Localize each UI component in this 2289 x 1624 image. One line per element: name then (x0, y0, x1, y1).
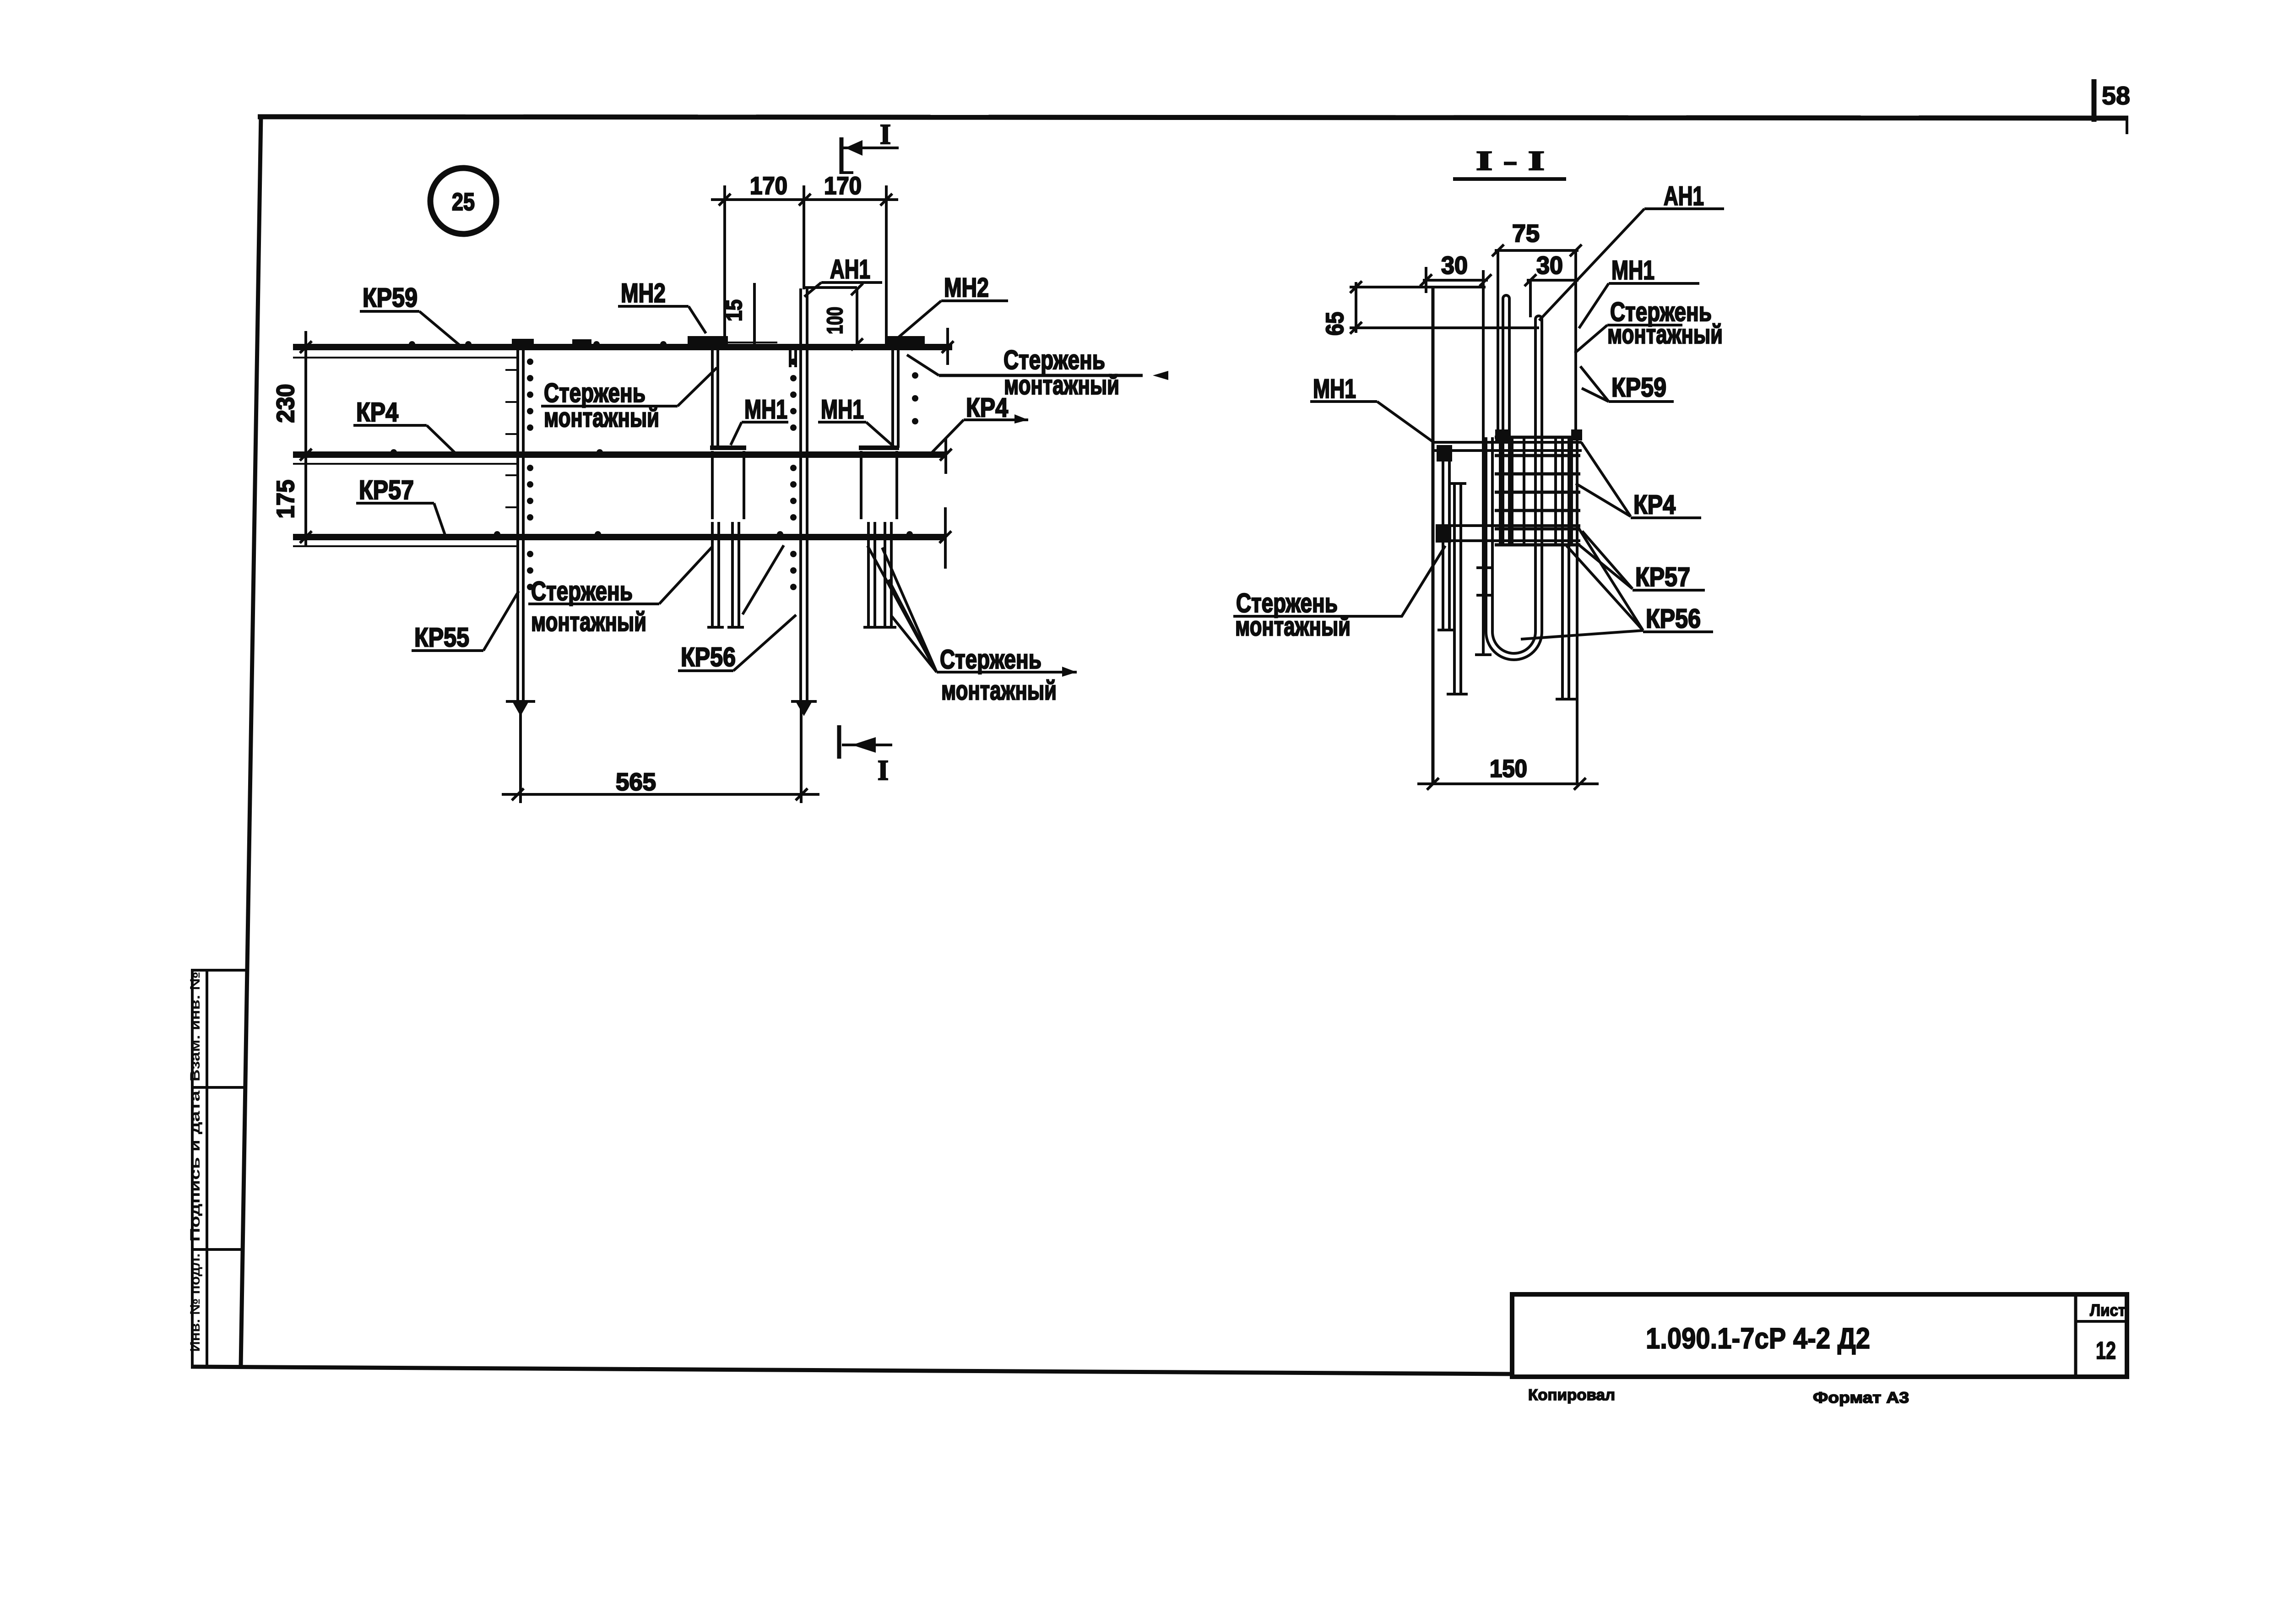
plate MH2 right (section blob) (885, 336, 925, 347)
svg-text:МН2: МН2 (944, 273, 989, 303)
dimension 15 (721, 283, 777, 346)
svg-text:монтажный: монтажный (1235, 612, 1351, 641)
svg-text:КР4: КР4 (356, 397, 398, 427)
svg-text:КР56: КР56 (1646, 604, 1701, 634)
bottom chord lower thin line (293, 545, 516, 547)
svg-text:монтажный: монтажный (941, 676, 1057, 706)
label KP59 (360, 283, 459, 345)
anchor rod AH1 (center) (790, 185, 857, 716)
weld blobs (1437, 445, 1452, 462)
vertical bar KP55 (506, 347, 535, 716)
label KP56 section (1521, 527, 1713, 639)
middle chord lower thin line (293, 463, 516, 465)
svg-text:58: 58 (2102, 81, 2130, 110)
svg-text:КР4: КР4 (966, 393, 1008, 423)
svg-text:монтажный: монтажный (531, 607, 646, 637)
right end tick middle chord (940, 439, 952, 474)
svg-text:Инв. № подл.: Инв. № подл. (188, 1254, 203, 1352)
right end tick bottom chord (939, 507, 951, 569)
rebar cage grid verticals (1500, 436, 1572, 544)
montage rod B (1447, 483, 1468, 694)
weld blob on chord (572, 339, 591, 348)
label KP59 section (1580, 366, 1674, 402)
svg-text:30: 30 (1536, 252, 1563, 279)
label MH1 section right (1579, 255, 1699, 328)
svg-text:монтажный: монтажный (544, 403, 659, 433)
top chord bar KP59 (293, 344, 952, 350)
svg-text:КР57: КР57 (1635, 562, 1690, 592)
label MH2 left (618, 278, 706, 333)
svg-text:230: 230 (272, 384, 299, 423)
svg-text:Копировал: Копировал (1528, 1386, 1615, 1404)
dimension 30 right (1524, 252, 1578, 317)
svg-text:монтажный: монтажный (1607, 320, 1723, 349)
frame right corner stub (2126, 119, 2128, 134)
montage rod C right (1556, 436, 1576, 699)
svg-text:565: 565 (616, 768, 656, 796)
inner plate edge (1475, 270, 1492, 655)
label sterzhen montazhny bottom center (528, 547, 712, 637)
svg-text:Лист: Лист (2090, 1301, 2126, 1320)
detail bubble 25 (430, 168, 496, 234)
svg-text:Стержень: Стержень (531, 576, 633, 606)
short rungs below plate (1476, 568, 1494, 595)
svg-text:КР56: КР56 (681, 642, 736, 672)
title block (1512, 1294, 2127, 1377)
svg-text:КР59: КР59 (1611, 373, 1666, 402)
label KP57 section (1577, 531, 1705, 592)
label KP4 right (931, 393, 1028, 454)
label KP4 section (1576, 442, 1701, 520)
top dimension line 170+170 (711, 172, 898, 345)
svg-text:170: 170 (750, 172, 787, 200)
svg-text:МН1: МН1 (744, 395, 787, 424)
plate MH2 left (section blob) (688, 336, 728, 347)
label KP57 (356, 475, 445, 535)
hanger rod to MH1 plate left (712, 347, 718, 448)
section title I-I (1453, 146, 1566, 179)
label MH1 right (818, 395, 894, 446)
page number tick (2092, 79, 2097, 122)
svg-text:Взам. инв. №: Взам. инв. № (188, 972, 203, 1081)
label sterzhen montazhny section right (1575, 297, 1723, 353)
dimension 100 (823, 283, 863, 350)
label MH1 left (731, 395, 788, 445)
top plate band (1432, 442, 1582, 451)
dimension 65 (1321, 281, 1539, 336)
svg-text:100: 100 (823, 307, 847, 334)
montage rods below left MH1 (707, 522, 744, 627)
svg-text:150: 150 (1490, 755, 1527, 782)
plate top edge (1431, 286, 1486, 288)
svg-text:КР55: КР55 (414, 623, 469, 652)
stamp side column boxes (191, 970, 246, 1366)
label sterzhen montazhny section left (1233, 546, 1445, 641)
svg-text:МН1: МН1 (1611, 255, 1654, 285)
weld dots on chords (391, 341, 918, 538)
svg-text:АН1: АН1 (1664, 181, 1704, 211)
svg-text:I: I (878, 755, 889, 786)
svg-text:Формат А3: Формат А3 (1813, 1389, 1909, 1407)
weld dots along AH1 (790, 358, 797, 590)
svg-text:Подпись и дата: Подпись и дата (188, 1091, 203, 1242)
rebar cage grid rungs (1495, 437, 1580, 545)
top chord lower thin line (293, 357, 516, 358)
middle chord bar KP4 (293, 451, 947, 458)
right end tick top chord (942, 328, 954, 365)
svg-text:30: 30 (1441, 252, 1468, 279)
svg-text:КР57: КР57 (359, 475, 414, 505)
dimension 565 (502, 705, 819, 803)
column face plate left edge (1432, 287, 1435, 784)
dimension 75 (1492, 220, 1582, 435)
label KP56 (678, 545, 796, 672)
montage rods below right MH1 (863, 522, 896, 627)
section cut mark top (841, 119, 899, 174)
dimension 30 left (1420, 252, 1492, 293)
label sterzhen montazhny upper center (541, 368, 717, 433)
svg-text:15: 15 (722, 299, 747, 321)
bottom chord bar KP57 (293, 534, 945, 540)
svg-text:175: 175 (272, 480, 299, 519)
dimension 150 (1417, 755, 1599, 790)
hanger rod to MH1 plate right (893, 347, 898, 448)
frame left border (241, 116, 261, 1366)
plate MH1 right (859, 448, 899, 519)
weld dots along KP55 (527, 358, 533, 590)
label sterzhen montazhny right with arrow (907, 345, 1168, 400)
right outer edge (1576, 430, 1578, 782)
label MH2 right (898, 273, 1008, 338)
label sterzhen montazhny bottom right (868, 546, 1077, 706)
svg-text:12: 12 (2096, 1337, 2116, 1364)
label KP55 (412, 591, 519, 652)
svg-text:МН2: МН2 (621, 278, 666, 308)
svg-text:КР59: КР59 (363, 283, 418, 313)
frame top border (258, 117, 2128, 118)
stirrup dashes on KP55 (505, 370, 518, 507)
weld blob on chord at KP55 joint (512, 339, 534, 348)
svg-text:монтажный: монтажный (1004, 370, 1119, 400)
label AH1 section (1539, 181, 1724, 320)
lower plate band (1438, 526, 1580, 541)
svg-text:I: I (880, 119, 891, 150)
grid rod with round top (1503, 295, 1509, 545)
frame bottom border (191, 1367, 1512, 1374)
label MH1 section left (1310, 374, 1434, 443)
svg-text:75: 75 (1512, 220, 1540, 247)
left dimension line 230/175 (272, 331, 312, 546)
svg-text:I - I: I - I (1476, 146, 1545, 176)
label KP4 left (353, 397, 456, 454)
plate MH1 left (710, 448, 746, 519)
svg-text:1.090.1-7сР 4-2 Д2: 1.090.1-7сР 4-2 Д2 (1646, 1322, 1870, 1355)
svg-text:МН1: МН1 (1313, 374, 1356, 404)
svg-text:25: 25 (452, 188, 475, 216)
section cut mark bottom (839, 725, 892, 786)
svg-text:65: 65 (1321, 312, 1349, 336)
svg-text:МН1: МН1 (821, 395, 864, 424)
svg-text:170: 170 (824, 172, 862, 200)
svg-text:Стержень: Стержень (940, 645, 1041, 674)
anchor U-rod AH1 (1486, 316, 1542, 660)
svg-text:КР4: КР4 (1633, 490, 1676, 520)
montage rod A (1437, 450, 1455, 630)
label AH1 (804, 255, 882, 297)
svg-text:АН1: АН1 (830, 255, 870, 284)
